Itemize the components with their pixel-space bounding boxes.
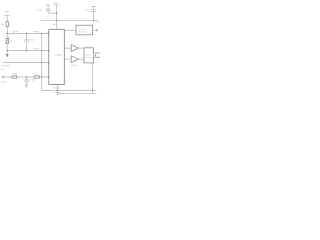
buzzer BZ1 — [96, 53, 101, 58]
supply V+ bar left — [4, 14, 9, 16]
svg-text:TLV3011: TLV3011 — [53, 86, 60, 89]
svg-text:0.1µF: 0.1µF — [37, 9, 43, 12]
resistor R1 — [6, 22, 8, 27]
capacitor C2 plates — [46, 9, 51, 11]
svg-text:7: 7 — [66, 46, 67, 49]
svg-text:INPUT: INPUT — [1, 81, 8, 84]
pin dots on IC left edge — [48, 33, 49, 34]
box1 oscillator — [76, 25, 93, 35]
svg-text:VREF1: VREF1 — [33, 31, 40, 34]
capacitor C3 stem lower — [93, 11, 95, 20]
wire VDD stem — [56, 5, 58, 29]
svg-text:Driver: Driver — [86, 56, 91, 59]
junction dots — [7, 33, 8, 34]
arrowhead node B down — [6, 54, 9, 58]
svg-text:R REF: R REF — [12, 31, 19, 34]
wire box2 to buzzer top — [93, 52, 96, 54]
wire box2 down — [92, 63, 94, 93]
svg-text:Oscillator: Oscillator — [79, 30, 87, 33]
capacitor C1 plates — [24, 40, 29, 42]
potentiometer R2 body — [6, 39, 8, 44]
svg-text:1kΩ: 1kΩ — [34, 73, 38, 76]
arrowhead box1 output — [96, 29, 98, 32]
svg-text:1µF: 1µF — [85, 9, 89, 12]
wire IC to box1 — [64, 29, 76, 31]
wire box1 output — [93, 29, 97, 31]
wire left stem — [6, 15, 8, 50]
capacitor C2 top bar — [46, 4, 50, 6]
svg-text:100kΩ: 100kΩ — [12, 73, 18, 76]
wire sensor input y62.6 — [3, 62, 49, 64]
wire C2 to VDD line — [48, 12, 57, 14]
terminal J1 — [2, 76, 4, 78]
svg-text:VDD: VDD — [5, 10, 10, 13]
wire IC to comparator A2 — [64, 58, 71, 60]
capacitor C2 stem lower — [47, 11, 49, 13]
wire IC ground stub — [56, 85, 58, 93]
svg-text:0.1µF: 0.1µF — [30, 38, 36, 41]
svg-text:VREF2: VREF2 — [33, 48, 40, 51]
capacitor C2 stem upper — [47, 5, 49, 9]
capacitor C4 branch wires — [26, 77, 28, 85]
capacitor C3 stem upper — [93, 6, 95, 10]
svg-text:VDD: VDD — [53, 2, 58, 5]
wire A2 output — [79, 58, 84, 60]
svg-text:TLV3012: TLV3012 — [54, 53, 62, 56]
svg-text:1: 1 — [66, 57, 67, 60]
ground bars under IC — [55, 92, 60, 94]
potentiometer R2 arrow — [6, 37, 10, 43]
svg-text:LMV331: LMV331 — [70, 64, 77, 67]
svg-text:3: 3 — [47, 31, 48, 34]
supply VDD bar top — [54, 4, 60, 6]
capacitor C4 plates — [24, 80, 29, 82]
wire ground rail 1 — [42, 89, 97, 91]
wire ground rail 2 — [57, 92, 96, 94]
svg-text:6: 6 — [47, 45, 48, 48]
wire node B horizontal — [7, 50, 49, 52]
capacitor C3 plates — [91, 10, 96, 12]
wire IC to comparator A1 — [64, 47, 71, 49]
svg-text:10k: 10k — [1, 23, 4, 26]
IC U1 box — [49, 29, 65, 84]
capacitor C1 branch wires — [26, 34, 28, 51]
wire node A horizontal — [7, 33, 49, 35]
resistor R3 — [12, 76, 17, 78]
svg-text:VDD: VDD — [52, 23, 57, 26]
svg-text:5: 5 — [47, 75, 48, 78]
comparator A2 — [71, 56, 78, 63]
capacitor C3 top bar — [91, 5, 96, 7]
svg-text:0.1µF: 0.1µF — [30, 78, 36, 81]
box2 driver — [84, 48, 93, 63]
wire vertical bus — [41, 34, 43, 91]
wire A1 output — [79, 47, 84, 49]
svg-text:R2: R2 — [10, 40, 12, 43]
wire rail y20.7 — [40, 21, 98, 23]
svg-text:C2: C2 — [47, 15, 49, 18]
svg-text:0.5V: 0.5V — [0, 68, 4, 71]
resistor R4 — [34, 76, 39, 78]
wire input y77 — [4, 76, 49, 78]
wire box2 to buzzer bottom — [93, 57, 96, 59]
svg-text:SENSOR: SENSOR — [2, 65, 11, 68]
wire arrow stub below node B — [6, 51, 8, 55]
comparator A1 — [71, 45, 78, 52]
ground bars under C4 — [25, 85, 28, 87]
